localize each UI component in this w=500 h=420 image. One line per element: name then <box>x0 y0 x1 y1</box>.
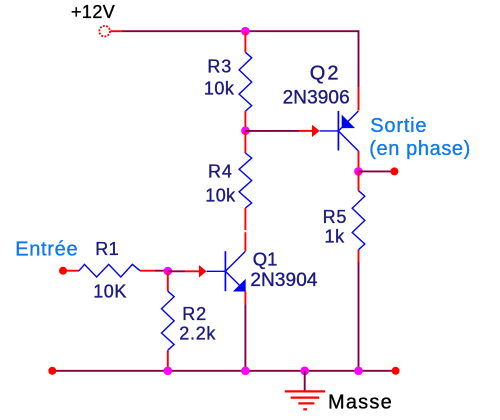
node Q1 base junction <box>164 267 173 276</box>
wire Q2 base maroon <box>245 130 299 132</box>
wire R4 top stub <box>244 131 246 153</box>
svg-text:Masse: Masse <box>328 392 393 414</box>
node Q1 emitter bottom <box>241 367 250 376</box>
svg-text:R1: R1 <box>95 239 119 259</box>
wire Q1 emitter red <box>244 292 246 305</box>
svg-text:Q1: Q1 <box>253 249 278 270</box>
Q2 emitter diagonal <box>338 111 358 131</box>
wire bottom rail <box>52 370 395 372</box>
wire R3 top stub <box>244 31 246 52</box>
svg-text:10k: 10k <box>204 78 235 98</box>
wire Q2 collector <box>358 151 360 171</box>
bottom rail right terminal dot <box>392 367 400 375</box>
svg-text:R2: R2 <box>182 304 207 324</box>
wire top rail <box>122 30 359 32</box>
transistor Q1 <box>225 251 245 291</box>
wire R3 bottom stub <box>244 111 246 131</box>
svg-text:2N3904: 2N3904 <box>250 270 317 291</box>
Q1 base bar <box>224 251 226 291</box>
Q1 emitter arrow <box>233 279 246 292</box>
bottom rail left terminal dot <box>48 367 56 375</box>
wire top rail red stub <box>110 30 122 32</box>
arrow Q2 base <box>312 125 320 137</box>
resistor R4 <box>239 153 252 208</box>
node R3 top <box>241 27 250 36</box>
svg-text:2.2k: 2.2k <box>179 323 216 343</box>
wire R5 top stub <box>358 171 360 190</box>
Q2 emitter arrow <box>342 115 355 129</box>
node ground junction <box>300 367 309 376</box>
node Q2 base junction <box>241 126 250 135</box>
wire Q1 base blue <box>207 270 226 272</box>
+12V terminal <box>99 26 110 37</box>
resistor R3 <box>239 52 252 111</box>
ground bar 2 <box>291 397 319 399</box>
svg-text:R3: R3 <box>207 57 232 77</box>
node R2 bottom <box>164 367 173 376</box>
wire right drop red <box>358 87 360 111</box>
svg-text:2N3906: 2N3906 <box>283 88 350 109</box>
node R5 bottom <box>354 367 363 376</box>
Q2 base bar <box>337 111 339 151</box>
wire Q1 emitter maroon <box>244 304 246 371</box>
wire R2 bottom stub <box>167 350 169 371</box>
svg-text:Sortie: Sortie <box>370 115 427 137</box>
input terminal dot <box>59 267 67 275</box>
wire Q2 base red <box>299 130 313 132</box>
wire R2 top stub <box>167 271 169 291</box>
wire R1 to junction maroon <box>155 270 168 272</box>
output terminal dot <box>390 167 398 175</box>
arrow Q1 base <box>199 265 207 277</box>
svg-text:R4: R4 <box>208 162 233 182</box>
Q1 collector diagonal <box>225 251 245 271</box>
wire R1 to junction red <box>140 270 155 272</box>
wire Q1 base red <box>185 270 199 272</box>
node output junction <box>354 167 363 176</box>
resistor R2 <box>162 291 175 350</box>
wire right drop maroon <box>358 30 360 87</box>
svg-text:10K: 10K <box>93 282 127 302</box>
wire Q1 base maroon <box>168 270 185 272</box>
wire R5 bottom red <box>358 250 360 262</box>
Q2 collector diagonal <box>338 131 358 151</box>
wire R5 bottom maroon <box>358 262 360 371</box>
wire input <box>65 270 79 272</box>
svg-text:1k: 1k <box>325 226 346 246</box>
svg-text:(en phase): (en phase) <box>369 138 471 160</box>
wire Q2 base blue <box>320 130 339 132</box>
svg-text:10k: 10k <box>205 185 236 205</box>
transistor Q2 <box>338 111 358 151</box>
svg-text:Entrée: Entrée <box>15 239 78 261</box>
ground bar 1 <box>285 390 325 392</box>
svg-text:R5: R5 <box>323 207 348 227</box>
wire R4 bottom to Q1 collector <box>244 208 246 230</box>
svg-text:Q2: Q2 <box>310 63 341 85</box>
svg-text:+12V: +12V <box>71 2 115 22</box>
ground stem <box>304 371 306 392</box>
ground bar 3 <box>298 402 314 404</box>
resistor R5 <box>352 191 365 250</box>
Q1 emitter diagonal <box>225 271 245 291</box>
ground bar 4 <box>303 408 307 410</box>
resistor R1 <box>79 264 140 277</box>
wire output <box>358 170 391 172</box>
wire Q1 collector stub <box>244 232 246 251</box>
